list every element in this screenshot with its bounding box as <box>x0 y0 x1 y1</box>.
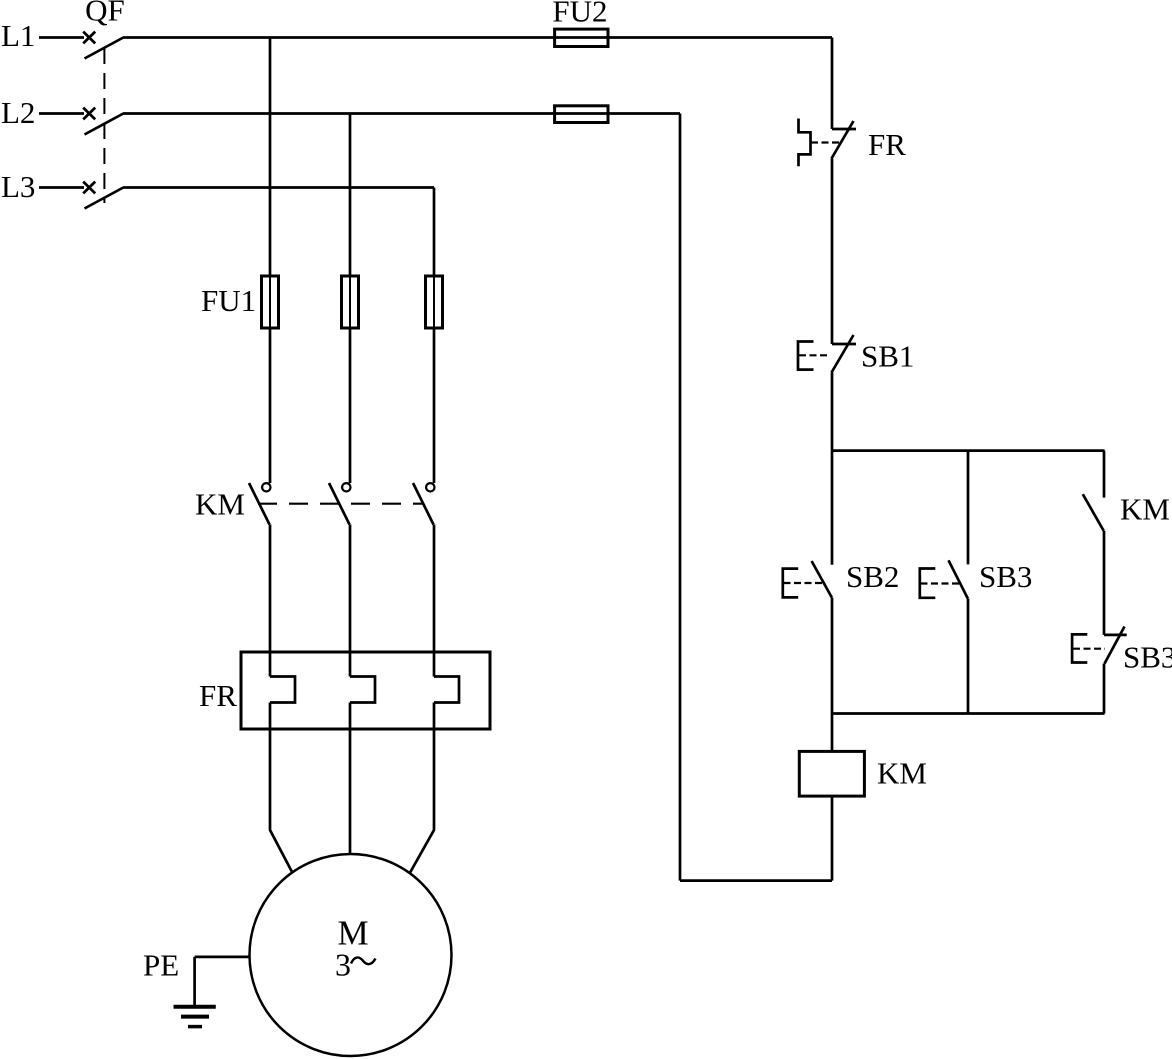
wire top rail <box>832 449 1105 452</box>
wire L3 incoming <box>39 186 84 189</box>
wire node to coil <box>831 714 834 752</box>
wire SB3 branch lower <box>967 599 970 714</box>
breaker QF pole 1 cross <box>83 32 95 44</box>
contact KM aux (NO) <box>1083 494 1104 531</box>
fuse FU1 a <box>262 276 279 328</box>
svg-text:SB2: SB2 <box>846 559 899 594</box>
wire bottom rail <box>832 712 1105 715</box>
pushbutton SB2 (NO) <box>812 561 832 598</box>
wire phase C contactor to FR <box>433 525 436 677</box>
wire L1 incoming <box>39 36 84 39</box>
thermal relay FR heater 3 <box>434 677 459 703</box>
breaker QF pole 3 cross <box>83 182 95 194</box>
wire control left vertical <box>679 114 682 881</box>
wire KM branch upper <box>1103 451 1106 498</box>
contactor KM main pole 3 <box>426 483 434 491</box>
ground <box>174 1005 216 1009</box>
svg-text:SB3: SB3 <box>979 559 1032 594</box>
wire phase B FR to motor <box>349 703 352 855</box>
wire L2 incoming <box>39 112 84 115</box>
wire coil to bottom <box>831 796 834 881</box>
wire SB3 branch upper <box>967 451 970 565</box>
svg-text:SB3: SB3 <box>1123 640 1172 675</box>
svg-text:FU1: FU1 <box>201 283 256 318</box>
wire L2 bus <box>123 112 680 115</box>
wire phase A drop <box>269 38 272 277</box>
svg-text:KM: KM <box>195 487 245 522</box>
wire phase C FR to motor <box>410 703 434 874</box>
wire phase B contactor to FR <box>349 525 352 677</box>
wire SB2 branch lower <box>831 598 834 714</box>
thermal relay FR box <box>241 652 490 729</box>
thermal relay FR heater 2 <box>350 677 375 703</box>
svg-text:KM: KM <box>1120 492 1170 527</box>
thermal relay FR heater 1 <box>270 677 295 703</box>
wire control right vertical top <box>831 38 834 130</box>
fuse FU1 b <box>342 276 359 328</box>
wire phase A contactor to FR <box>269 525 272 677</box>
wire SB2 branch upper <box>831 451 834 565</box>
svg-text:FU2: FU2 <box>552 0 607 29</box>
coil KM <box>799 751 864 796</box>
svg-text:FR: FR <box>199 678 237 713</box>
wire SB3nc branch lower <box>1103 664 1106 714</box>
svg-text:PE: PE <box>143 948 179 983</box>
fuse FU2 a <box>555 29 608 46</box>
pushbutton SB3 (NO) <box>949 560 968 598</box>
svg-text:SB1: SB1 <box>861 339 914 374</box>
svg-text:L2: L2 <box>1 95 35 130</box>
wire PE <box>195 956 249 959</box>
pushbutton SB1 (NC) <box>832 343 856 346</box>
breaker QF pole 2 cross <box>83 108 95 120</box>
breaker QF pole 2 blade <box>85 114 124 135</box>
wire phase A FR to motor <box>270 703 292 872</box>
svg-text:L1: L1 <box>1 18 35 53</box>
breaker QF pole 3 blade <box>85 188 124 209</box>
svg-text:QF: QF <box>85 0 125 28</box>
wire phase B drop <box>349 114 352 277</box>
breaker QF linkage dashed <box>103 48 105 203</box>
fuse FU2 b <box>555 106 608 123</box>
contactor KM linkage dashed <box>258 503 424 505</box>
wire phase C fuse to contactor <box>433 328 436 483</box>
wire L3 bus <box>123 186 434 189</box>
motor M1 <box>250 854 452 1056</box>
svg-text:L3: L3 <box>1 169 35 204</box>
wire L1 bus <box>123 36 832 39</box>
wire phase C drop <box>433 188 436 277</box>
wire FR to SB1 <box>831 159 834 345</box>
wire KM to SB3nc <box>1103 531 1106 635</box>
relay contact FR (NC) <box>832 128 856 131</box>
wire control bottom horizontal <box>680 879 832 882</box>
svg-text:3: 3 <box>335 947 351 983</box>
fuse FU1 c <box>426 276 443 328</box>
wire SB1 to node <box>831 373 834 451</box>
contactor KM main pole 2 <box>342 483 350 491</box>
contactor KM main pole 1 <box>262 483 270 491</box>
breaker QF pole 1 blade <box>85 38 124 59</box>
wire phase A fuse to contactor <box>269 328 272 483</box>
svg-text:FR: FR <box>868 127 906 162</box>
svg-text:KM: KM <box>877 756 927 791</box>
pushbutton SB3 (NC) <box>1104 634 1127 637</box>
wire phase B fuse to contactor <box>349 328 352 483</box>
